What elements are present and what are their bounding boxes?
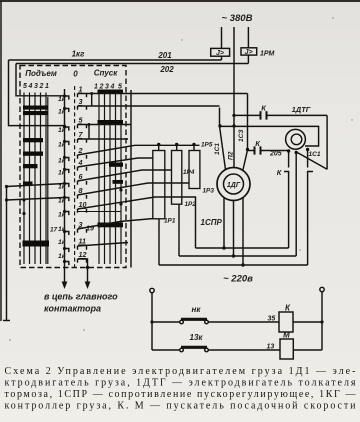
wire row 3-19 to box1 bottom xyxy=(78,219,154,230)
relay coil K xyxy=(279,312,293,332)
wire thruster drop 3 xyxy=(307,150,309,168)
wire row2 mid xyxy=(208,349,280,351)
svg-text:3: 3 xyxy=(34,83,38,90)
svg-text:1к: 1к xyxy=(58,184,66,191)
contact 1K wire 7 xyxy=(63,139,87,145)
node hoist col5 joints xyxy=(22,198,25,201)
terminal right xyxy=(320,287,324,291)
svg-text:1кг: 1кг xyxy=(72,50,86,59)
svg-text:1Р1: 1Р1 xyxy=(164,218,176,225)
node phase B / crossing xyxy=(232,124,235,127)
svg-text:нк: нк xyxy=(192,305,202,314)
labels lower positions 12345 xyxy=(94,84,122,91)
svg-text:П2: П2 xyxy=(228,151,235,160)
wire tap2 drop to rail B xyxy=(178,204,180,256)
wire row1 mid xyxy=(208,321,279,323)
label 1DTG xyxy=(292,105,311,114)
label 1S1 vertical xyxy=(214,143,221,155)
node resistor top stubs xyxy=(157,143,196,151)
wire rail B xyxy=(179,255,296,257)
wire tap1 drop to rail C xyxy=(158,219,160,265)
labels 1k contact column xyxy=(58,96,66,260)
contact 1K wire 6 xyxy=(63,181,87,187)
svg-text:1: 1 xyxy=(79,85,83,94)
contact K bracket left xyxy=(284,172,289,249)
wire left side drop xyxy=(6,187,8,321)
contact 1K wire 319 xyxy=(63,229,87,235)
wire row1 right xyxy=(293,321,322,323)
svg-text:1к: 1к xyxy=(58,212,66,219)
wire row 7 stub xyxy=(78,138,129,140)
controller lower position columns xyxy=(99,91,121,264)
wire phase C xyxy=(247,27,249,48)
svg-text:35: 35 xyxy=(268,316,276,323)
svg-text:3: 3 xyxy=(105,84,109,91)
svg-text:1Р5: 1Р5 xyxy=(201,142,213,149)
resistor 1SPR section 3 xyxy=(189,151,200,189)
svg-text:1к: 1к xyxy=(58,198,66,205)
contact 1K wire 5 xyxy=(63,125,87,131)
svg-text:1Р2: 1Р2 xyxy=(185,201,197,208)
label 1DG xyxy=(227,182,241,189)
motor 1DG inner xyxy=(224,174,244,194)
wire row2 left xyxy=(152,349,180,351)
contact NK xyxy=(180,319,209,324)
relay 1RM pole C xyxy=(241,48,257,55)
contact 1K wire 3 xyxy=(63,106,87,112)
svg-text:3: 3 xyxy=(79,97,83,106)
relay 1RM pole A xyxy=(211,48,230,56)
svg-text:5: 5 xyxy=(23,83,27,90)
wire 202 drop xyxy=(16,64,66,96)
svg-text:Ј>: Ј> xyxy=(216,50,224,57)
label 25 xyxy=(268,316,276,323)
svg-text:~ 220в: ~ 220в xyxy=(223,274,253,285)
contact bars hoist side xyxy=(23,106,50,247)
svg-text:1ДГ: 1ДГ xyxy=(227,182,241,189)
wire row 11 stub xyxy=(78,243,129,247)
wire 1S3 stator xyxy=(243,94,248,170)
wire phase A to 201 xyxy=(221,56,223,60)
svg-text:1к: 1к xyxy=(58,127,66,134)
wire 205 with K contact xyxy=(248,150,254,152)
node row1 left xyxy=(150,320,153,323)
label 201 xyxy=(157,51,172,60)
svg-text:11: 11 xyxy=(79,237,86,246)
contact 1K wire 4 xyxy=(63,167,87,173)
svg-text:5: 5 xyxy=(118,84,122,91)
node lower col5 joints xyxy=(119,188,122,191)
link rows 1-3 xyxy=(91,94,93,107)
controller contact rail xyxy=(50,85,94,268)
svg-text:13к: 13к xyxy=(190,333,204,342)
contact 1K wire 12 xyxy=(63,259,87,265)
thruster middle wire and body loop xyxy=(220,126,319,146)
label NK xyxy=(192,305,202,314)
contact 1K wire 1 xyxy=(63,94,87,100)
wire row 3 to 1S1 xyxy=(78,105,220,107)
labels wire numbers with underlines xyxy=(78,85,95,260)
node thruster drop 2 xyxy=(295,151,298,154)
svg-text:1к: 1к xyxy=(58,170,66,177)
wire 1S1 stator xyxy=(220,108,226,170)
wire row aux 19 xyxy=(78,211,122,213)
wire row 8 tap xyxy=(7,184,65,187)
wire row 12 drop arrow xyxy=(78,259,88,282)
wire rail drop arrow xyxy=(64,268,66,282)
relay coil M xyxy=(280,339,293,359)
svg-text:1РМ: 1РМ xyxy=(260,51,275,58)
label 0 xyxy=(73,70,78,79)
svg-text:0: 0 xyxy=(73,70,78,79)
svg-text:1: 1 xyxy=(94,84,98,91)
terminal left xyxy=(150,288,154,292)
wire thruster drop 1 xyxy=(288,151,290,168)
contact 1K wire 10 xyxy=(63,209,87,215)
wire phase A xyxy=(221,27,223,48)
wire thruster drop 2 (middle, no contact) xyxy=(295,153,297,257)
wire left drop end tick xyxy=(3,320,10,322)
controller 1KG dashed box xyxy=(20,66,126,268)
label K lower xyxy=(277,168,283,177)
svg-text:17: 17 xyxy=(50,227,58,234)
label 13K xyxy=(190,333,204,342)
wire phase B xyxy=(233,27,235,168)
wire 201 drop xyxy=(9,60,67,126)
label P2 vertical xyxy=(228,151,235,160)
wire phase C to 202 xyxy=(247,55,249,63)
controller row wires xyxy=(3,92,248,321)
svg-text:4: 4 xyxy=(110,84,115,91)
thruster right edge xyxy=(326,115,328,169)
wire row 5 stub xyxy=(78,124,132,126)
scan border left xyxy=(0,1,2,321)
svg-text:1к: 1к xyxy=(58,253,66,260)
svg-text:1к: 1к xyxy=(58,96,66,103)
svg-text:Спуск: Спуск xyxy=(94,69,119,78)
wire rotor 2 xyxy=(233,201,235,257)
contact K bracket right xyxy=(308,172,313,266)
node phase B / thruster top xyxy=(232,114,235,117)
wire rotor 3 xyxy=(242,198,244,266)
wire row 1 to 1S3 xyxy=(78,93,248,95)
svg-text:Подъем: Подъем xyxy=(25,69,57,78)
wire row 6 tap xyxy=(78,170,172,181)
svg-text:1Р4: 1Р4 xyxy=(183,169,195,176)
svg-text:2: 2 xyxy=(99,84,104,91)
wire 202 xyxy=(16,63,248,65)
svg-text:2: 2 xyxy=(39,83,44,90)
scan specks xyxy=(9,17,352,341)
resistor 1SPR section 2 xyxy=(172,151,182,205)
svg-text:1к: 1к xyxy=(58,142,66,149)
wire right rail xyxy=(321,292,323,350)
caption text xyxy=(5,366,357,412)
svg-text:1СПР: 1СПР xyxy=(201,218,223,227)
wire left rail xyxy=(151,293,153,350)
thruster motor circle xyxy=(286,129,306,149)
svg-text:~ 380В: ~ 380В xyxy=(222,13,253,24)
svg-text:в цепь главного: в цепь главного xyxy=(44,292,118,302)
label Spusk xyxy=(94,69,119,78)
svg-text:М: М xyxy=(283,331,290,340)
label M coil xyxy=(283,331,290,340)
right side: motor, thruster, rails xyxy=(159,94,327,285)
svg-text:1С1: 1С1 xyxy=(214,143,221,155)
label 202 xyxy=(159,65,174,74)
svg-text:1С1: 1С1 xyxy=(309,151,321,158)
svg-text:1к: 1к xyxy=(58,109,66,116)
wire row 4 tap xyxy=(78,158,154,167)
label 1S1 right xyxy=(309,151,321,158)
svg-text:1к: 1к xyxy=(58,158,66,165)
wire row1 left xyxy=(152,321,180,323)
label ~380V xyxy=(222,13,253,24)
wire rotor 1 xyxy=(223,198,225,249)
contact 1K wire 8 xyxy=(63,195,87,201)
label K coil xyxy=(285,304,291,313)
svg-text:1к: 1к xyxy=(58,226,66,233)
svg-text:13: 13 xyxy=(267,344,275,351)
contact 1K wire 2 xyxy=(63,155,87,161)
wire rail C xyxy=(159,264,308,266)
contact 1K wire 11 xyxy=(63,246,87,252)
svg-text:4: 4 xyxy=(28,83,33,90)
svg-text:201: 201 xyxy=(157,51,172,60)
resistor 1SPR section 1 xyxy=(153,151,165,219)
svg-text:контактора: контактора xyxy=(44,304,101,314)
svg-text:1: 1 xyxy=(45,83,49,90)
label K mid xyxy=(255,139,261,148)
node thruster drop 3 xyxy=(306,148,309,151)
wire row 2 resistor top 1R5 xyxy=(78,145,200,155)
label 1KG xyxy=(72,50,86,59)
thruster top wire with K contact xyxy=(234,114,261,116)
node 1S3 branch xyxy=(246,148,249,151)
controller zero-position dashed axis xyxy=(74,86,76,268)
labels hoist positions 54321 xyxy=(23,83,49,90)
link rows 5-7 xyxy=(88,125,90,140)
wire row2 right xyxy=(293,349,322,351)
label 1S3 vertical xyxy=(238,129,245,142)
svg-text:205: 205 xyxy=(269,151,282,158)
scan border top xyxy=(0,0,360,2)
label ~220V xyxy=(223,274,253,285)
wire link 3-19 right of box xyxy=(130,90,132,268)
label 13 xyxy=(267,344,275,351)
wire 201 xyxy=(9,59,222,61)
label K top xyxy=(261,104,267,113)
contact bars lower side xyxy=(98,90,124,228)
node row12 box crossing xyxy=(86,266,89,269)
svg-text:202: 202 xyxy=(159,65,174,74)
label 205 xyxy=(269,151,282,158)
contact 13K xyxy=(180,347,209,352)
label 1RM xyxy=(260,51,275,58)
controller hoist position columns xyxy=(24,93,48,265)
label Podyem xyxy=(25,69,57,78)
svg-text:12: 12 xyxy=(79,250,87,259)
node 1S1 branch xyxy=(218,124,221,127)
svg-text:1ДТГ: 1ДТГ xyxy=(292,105,311,114)
wire rail A xyxy=(196,247,289,249)
bottom sub-circuit K M xyxy=(150,287,324,359)
svg-text:1СЗ: 1СЗ xyxy=(238,129,245,142)
label to main contactor xyxy=(44,292,118,314)
node row1 right xyxy=(320,320,323,323)
thruster diagonal xyxy=(297,153,327,170)
motor 1DG outer xyxy=(217,168,250,201)
wire row 10 to rail A xyxy=(7,198,65,201)
svg-text:1к: 1к xyxy=(58,239,66,246)
node thruster drop 1 xyxy=(287,149,290,152)
svg-text:1Р3: 1Р3 xyxy=(203,188,215,195)
